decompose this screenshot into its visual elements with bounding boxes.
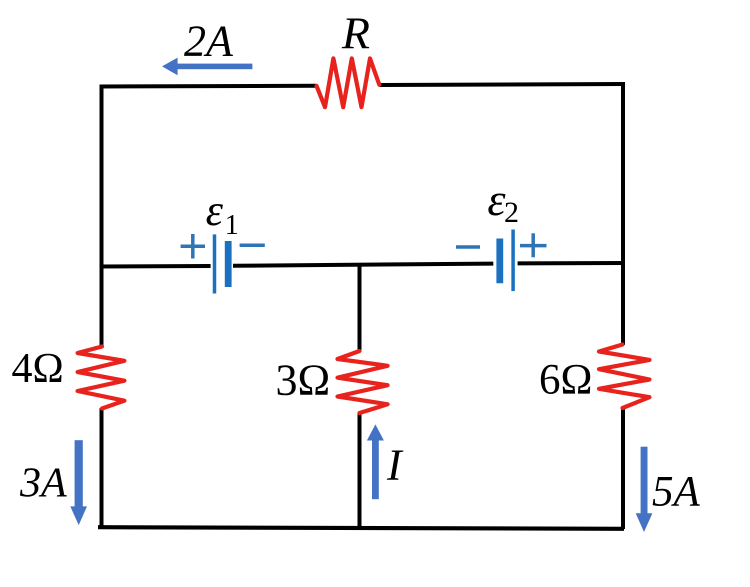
battery E2 plus sign xyxy=(520,233,547,257)
svg-text:3Ω: 3Ω xyxy=(276,356,331,405)
svg-text:R: R xyxy=(341,8,370,59)
wire left vertical lower xyxy=(100,408,104,529)
battery E2 minus plate xyxy=(496,239,503,284)
wire middle horizontal left xyxy=(100,264,211,269)
current arrow 5A xyxy=(636,447,653,532)
svg-text:2: 2 xyxy=(504,196,519,229)
wire right vertical lower xyxy=(621,408,625,530)
wire left vertical upper xyxy=(100,85,104,348)
svg-text:ε: ε xyxy=(206,186,224,235)
battery E2 minus sign xyxy=(456,245,480,249)
label E2 xyxy=(487,174,519,229)
svg-text:1: 1 xyxy=(225,210,239,241)
wire middle horizontal right xyxy=(518,261,625,265)
svg-text:I: I xyxy=(386,440,404,489)
wire right vertical upper xyxy=(621,83,625,346)
battery E1 plus sign xyxy=(181,234,205,259)
svg-text:3A: 3A xyxy=(19,461,67,507)
wire top-right segment xyxy=(380,84,626,85)
current arrow I xyxy=(367,424,384,499)
current arrow 3A xyxy=(70,440,87,525)
resistor 3ohm xyxy=(338,351,388,413)
label E1 xyxy=(206,186,239,241)
battery E2 plus plate xyxy=(511,230,515,292)
wire middle vertical lower xyxy=(358,413,362,529)
battery E1 plus plate xyxy=(213,234,217,293)
wire top-left segment xyxy=(100,84,317,89)
svg-text:5A: 5A xyxy=(652,469,701,516)
svg-text:2A: 2A xyxy=(184,17,234,66)
wire middle vertical upper xyxy=(358,264,362,352)
wire middle horizontal center xyxy=(233,264,493,266)
svg-text:6Ω: 6Ω xyxy=(539,356,592,403)
wire bottom xyxy=(98,527,624,529)
battery E1 minus sign xyxy=(240,244,265,248)
resistor 4ohm xyxy=(78,347,125,409)
battery E1 minus plate xyxy=(225,241,232,287)
resistor R xyxy=(317,58,380,107)
svg-text:4Ω: 4Ω xyxy=(12,346,64,392)
resistor 6ohm xyxy=(599,345,650,409)
current arrow 2A xyxy=(162,58,252,76)
